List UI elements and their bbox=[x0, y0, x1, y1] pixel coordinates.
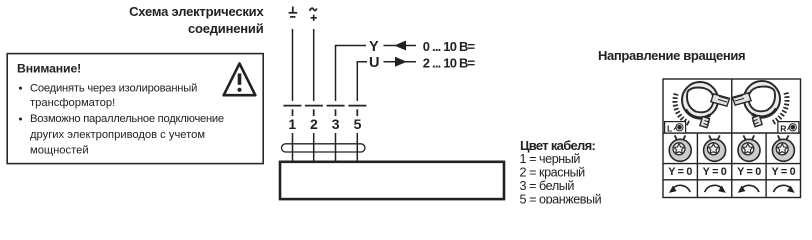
rotation table frame bbox=[663, 79, 801, 198]
svg-text:Соединять через изолированный: Соединять через изолированный bbox=[30, 82, 197, 94]
svg-text:Возможно параллельное подключе: Возможно параллельное подключение bbox=[30, 113, 224, 125]
svg-text:Направление вращения: Направление вращения bbox=[598, 48, 745, 63]
warning box bbox=[7, 54, 263, 164]
rotation arrow cw (col 2) bbox=[705, 185, 726, 193]
svg-text:Цвет кабеля:: Цвет кабеля: bbox=[520, 138, 595, 153]
svg-text:2: 2 bbox=[310, 116, 318, 132]
terminal tick 4 bbox=[348, 106, 366, 116]
R box bbox=[778, 122, 799, 134]
svg-text:соединений: соединений bbox=[188, 21, 264, 36]
svg-text:других электроприводов с учето: других электроприводов с учетом bbox=[30, 129, 205, 141]
wire 2 bbox=[313, 29, 315, 101]
terminal tick 3 bbox=[327, 106, 345, 116]
terminal tick 2 bbox=[305, 106, 323, 116]
left actuator illustration bbox=[675, 82, 730, 128]
svg-text:Схема электрических: Схема электрических bbox=[129, 4, 264, 19]
svg-text:1: 1 bbox=[288, 116, 296, 132]
L box bbox=[665, 122, 686, 134]
rotation arrow ccw (col 3) bbox=[738, 185, 759, 193]
svg-text:R: R bbox=[780, 123, 786, 133]
wire 4 (U) bbox=[357, 62, 367, 101]
rotation arrow cw (col 4) bbox=[773, 185, 794, 193]
warning bullet 1 bbox=[19, 87, 22, 90]
knob icon column 3 bbox=[738, 135, 760, 161]
svg-text:2 = красный: 2 = красный bbox=[520, 166, 586, 180]
svg-text:1 = черный: 1 = черный bbox=[520, 152, 581, 166]
right actuator illustration bbox=[733, 81, 788, 127]
warning triangle bbox=[224, 64, 256, 96]
svg-text:трансформатор!: трансформатор! bbox=[30, 97, 115, 109]
svg-text:Y = 0: Y = 0 bbox=[668, 166, 692, 178]
cable color list bbox=[520, 152, 602, 207]
svg-text:3 = белый: 3 = белый bbox=[520, 179, 575, 193]
knob icon column 1 bbox=[669, 135, 691, 161]
svg-text:L: L bbox=[667, 123, 672, 133]
ground symbol (terminal 1) bbox=[289, 7, 298, 17]
knob icon column 4 bbox=[772, 135, 794, 161]
U output arrow bbox=[384, 61, 417, 63]
Y input arrow bbox=[384, 45, 417, 47]
rotation arrow ccw (col 1) bbox=[669, 185, 690, 193]
svg-text:U: U bbox=[369, 55, 379, 71]
svg-text:Y = 0: Y = 0 bbox=[703, 166, 727, 178]
Y=0 labels bbox=[668, 166, 795, 178]
title: Схема электрических соединений bbox=[129, 4, 264, 36]
wire 3 (Y) bbox=[336, 46, 367, 102]
actuator body rectangle bbox=[280, 162, 504, 199]
terminal numbers 1 2 3 5 bbox=[288, 116, 361, 132]
AC symbol ~ + (terminal 2) bbox=[310, 8, 317, 11]
svg-text:5 = оранжевый: 5 = оранжевый bbox=[520, 193, 602, 204]
svg-text:2 ... 10 В=: 2 ... 10 В= bbox=[423, 56, 476, 71]
svg-text:Y = 0: Y = 0 bbox=[771, 166, 795, 178]
svg-text:Внимание!: Внимание! bbox=[17, 61, 81, 75]
svg-text:Y = 0: Y = 0 bbox=[737, 166, 761, 178]
warning bullet 2 bbox=[19, 118, 22, 121]
wire 1 bbox=[292, 29, 294, 101]
svg-text:3: 3 bbox=[332, 116, 340, 132]
wires into actuator bbox=[293, 133, 358, 162]
knob icon column 2 bbox=[704, 135, 726, 161]
terminal tick 1 bbox=[283, 106, 301, 116]
svg-text:мощностей: мощностей bbox=[30, 144, 89, 156]
cable collar (stadium) bbox=[282, 144, 366, 152]
svg-text:5: 5 bbox=[354, 116, 362, 132]
svg-text:0 ... 10 В=: 0 ... 10 В= bbox=[423, 39, 476, 54]
svg-text:Y: Y bbox=[369, 39, 379, 55]
